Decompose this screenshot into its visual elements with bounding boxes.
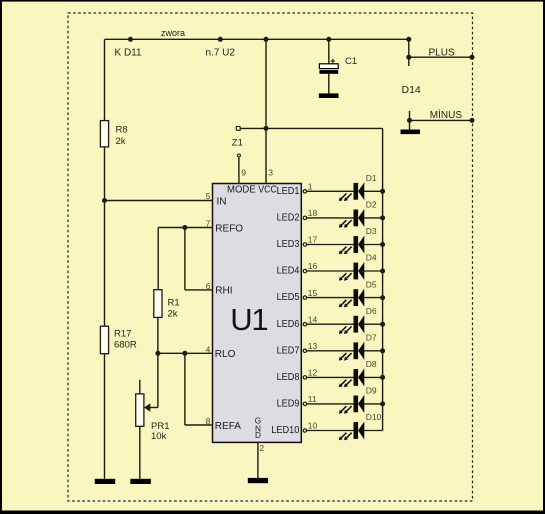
svg-text:2k: 2k — [168, 309, 178, 320]
svg-text:D3: D3 — [366, 226, 377, 236]
svg-text:D14: D14 — [402, 84, 421, 96]
svg-text:16: 16 — [308, 261, 318, 271]
svg-text:LED7: LED7 — [277, 345, 300, 356]
svg-text:REFO: REFO — [215, 224, 243, 235]
svg-text:15: 15 — [308, 288, 318, 298]
svg-text:K D11: K D11 — [115, 48, 142, 59]
svg-text:D: D — [255, 431, 261, 440]
svg-text:R8: R8 — [116, 124, 128, 135]
svg-text:R1: R1 — [168, 298, 180, 309]
svg-text:LED6: LED6 — [277, 319, 300, 330]
svg-text:5: 5 — [206, 191, 211, 201]
svg-text:2: 2 — [259, 443, 264, 453]
svg-text:PLUS: PLUS — [429, 48, 455, 59]
svg-text:4: 4 — [206, 345, 211, 355]
svg-text:zwora: zwora — [161, 28, 185, 38]
svg-text:10k: 10k — [151, 431, 167, 442]
svg-text:D8: D8 — [366, 359, 377, 369]
svg-text:RLO: RLO — [215, 349, 236, 360]
svg-text:17: 17 — [308, 235, 318, 245]
svg-text:D10: D10 — [366, 412, 382, 422]
svg-text:VCC: VCC — [258, 185, 277, 196]
svg-text:MODE: MODE — [227, 185, 256, 196]
svg-text:LED4: LED4 — [277, 266, 300, 277]
svg-text:D9: D9 — [366, 386, 377, 396]
svg-text:LED9: LED9 — [277, 399, 300, 410]
svg-text:LED2: LED2 — [277, 213, 300, 224]
svg-text:D4: D4 — [366, 253, 377, 263]
svg-text:8: 8 — [206, 416, 211, 426]
svg-text:n.7 U2: n.7 U2 — [206, 48, 236, 59]
svg-text:D5: D5 — [366, 279, 377, 289]
svg-text:U1: U1 — [230, 302, 267, 337]
svg-text:LED8: LED8 — [277, 372, 300, 383]
svg-text:Z1: Z1 — [232, 137, 243, 148]
svg-text:2k: 2k — [116, 136, 126, 147]
svg-text:LED5: LED5 — [277, 292, 300, 303]
svg-text:9: 9 — [241, 168, 246, 178]
svg-text:680R: 680R — [114, 340, 137, 351]
svg-text:D2: D2 — [366, 200, 377, 210]
svg-text:LED1: LED1 — [277, 186, 300, 197]
svg-text:7: 7 — [206, 219, 211, 229]
svg-text:6: 6 — [206, 281, 211, 291]
svg-text:REFA: REFA — [215, 421, 241, 432]
svg-text:3: 3 — [268, 168, 273, 178]
svg-text:1: 1 — [308, 182, 313, 192]
svg-text:D1: D1 — [366, 173, 377, 183]
svg-text:11: 11 — [308, 394, 317, 404]
svg-text:12: 12 — [308, 368, 318, 378]
svg-text:14: 14 — [308, 314, 318, 324]
svg-text:IN: IN — [217, 196, 227, 207]
svg-text:C1: C1 — [345, 56, 357, 67]
svg-text:18: 18 — [308, 208, 318, 218]
svg-text:D7: D7 — [366, 332, 377, 342]
svg-text:LED10: LED10 — [271, 425, 300, 436]
svg-text:10: 10 — [308, 421, 318, 431]
svg-text:13: 13 — [308, 341, 318, 351]
svg-text:D6: D6 — [366, 306, 377, 316]
svg-text:RHI: RHI — [215, 286, 232, 297]
svg-text:MİNUS: MİNUS — [430, 108, 463, 121]
svg-text:R17: R17 — [114, 329, 131, 340]
svg-text:LED3: LED3 — [277, 239, 300, 250]
